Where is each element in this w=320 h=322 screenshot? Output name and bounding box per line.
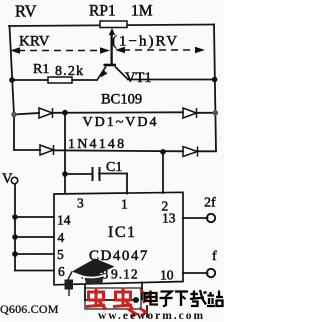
wire left bus	[10, 26, 15, 150]
watermark red char bug 1	[86, 288, 106, 310]
wire pin9-12 stub	[141, 283, 143, 300]
diode VD2 (left bottom)	[40, 145, 54, 155]
wire pin3 stub	[64, 174, 66, 194]
wire pin1 stub	[126, 174, 128, 194]
svg-text:14: 14	[57, 213, 71, 228]
watermark red char bug 2	[113, 288, 133, 310]
svg-text:C1: C1	[106, 160, 122, 175]
wire top rail	[9, 25, 214, 27]
wire pin14 row	[15, 216, 54, 218]
wire right bus	[214, 25, 216, 152]
svg-text:VT1: VT1	[125, 70, 152, 86]
node Vo pin4	[12, 234, 18, 240]
svg-text:RV: RV	[15, 2, 37, 21]
svg-text:4: 4	[58, 230, 65, 245]
wire diode row 1	[13, 113, 39, 115]
watermark red splash	[128, 290, 149, 317]
wire pin6 row	[15, 270, 54, 272]
svg-text:Q606.COM: Q606.COM	[0, 302, 59, 316]
terminal f output circle	[207, 269, 215, 277]
glyph 电	[145, 291, 159, 305]
svg-text:ww.eeworm.com: ww.eeworm.com	[98, 310, 205, 322]
node left bus diode row1	[11, 112, 17, 118]
svg-text:BC109: BC109	[101, 92, 142, 108]
node R1/left bus	[9, 77, 15, 83]
svg-text:2f: 2f	[204, 196, 216, 211]
transistor VT1	[97, 33, 128, 80]
wire pin10 stub	[183, 272, 208, 274]
node ground rail	[133, 297, 139, 303]
svg-text:5: 5	[57, 247, 64, 262]
watermark graduation cap	[65, 259, 115, 297]
svg-text:3: 3	[77, 196, 84, 211]
wire C1 row	[65, 173, 92, 175]
node right bus diode row1	[213, 110, 219, 116]
svg-text:VD1~VD4: VD1~VD4	[83, 115, 159, 130]
resistor R1	[48, 77, 72, 83]
svg-text:1: 1	[121, 197, 128, 212]
svg-text:1M: 1M	[131, 3, 153, 20]
node Vo pin14	[12, 214, 18, 220]
glyph 下	[175, 292, 188, 307]
wire node X vertical	[64, 113, 66, 174]
node X diode row1	[62, 110, 68, 116]
node pin2 diode row2	[160, 149, 166, 155]
wire pin2 stub	[162, 152, 164, 193]
dashed arrow KRV	[10, 47, 110, 53]
svg-text:KRV: KRV	[19, 34, 50, 50]
glyph 载	[190, 290, 207, 306]
capacitor C1	[93, 167, 100, 181]
watermark red logo border box	[85, 288, 141, 309]
svg-text:1N4148: 1N4148	[68, 137, 126, 152]
node junction dots	[9, 77, 218, 303]
diode VD4 (right bottom)	[183, 147, 198, 157]
node C1 left	[62, 171, 68, 177]
wire ground rail	[85, 299, 136, 301]
glyph 站	[207, 291, 223, 307]
svg-text:f: f	[212, 249, 217, 264]
svg-text:V: V	[2, 171, 13, 187]
wire R1 row	[12, 79, 48, 81]
wire collector to right bus	[128, 79, 214, 81]
svg-text:IC1: IC1	[108, 224, 137, 241]
wire diode row 2	[14, 149, 40, 151]
wire pin7 stub	[84, 285, 86, 301]
svg-text:6: 6	[58, 264, 65, 279]
op IC1 CD4047 box	[54, 192, 183, 284]
diode VD3 (right top)	[183, 108, 197, 118]
svg-text:(1−h)RV: (1−h)RV	[112, 34, 179, 50]
diode VD1 (left top)	[39, 108, 53, 118]
node Vo pin5	[12, 251, 18, 257]
svg-text:13: 13	[162, 211, 176, 226]
terminal Vo	[11, 177, 17, 183]
wire pin4 row	[15, 236, 54, 238]
terminal 2f output circle	[207, 214, 215, 222]
svg-text:RP1: RP1	[89, 3, 116, 20]
svg-text:R1: R1	[33, 62, 49, 77]
dashed arrow (1-h)RV	[115, 47, 205, 53]
svg-text:10: 10	[160, 268, 174, 283]
wire pin13 stub	[183, 217, 208, 219]
wire Vo vertical	[14, 184, 16, 271]
glyph 子	[160, 292, 173, 307]
wire pin5 row	[15, 253, 54, 255]
svg-text:9.12: 9.12	[111, 267, 139, 282]
watermark text 电子下载站 (hand drawn glyphs)	[145, 290, 224, 307]
node collector/right bus	[212, 77, 218, 83]
potentiometer RP1	[100, 21, 127, 65]
svg-text:8.2k: 8.2k	[55, 64, 84, 79]
wire ground drop	[146, 306, 148, 317]
